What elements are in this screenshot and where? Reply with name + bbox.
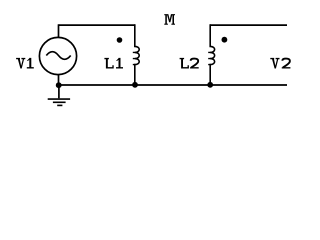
label M <box>164 14 175 25</box>
wire: left loop top <box>59 24 135 26</box>
wire: bottom rail <box>59 84 288 86</box>
wire: V1 bottom stub <box>58 75 60 85</box>
label L2 <box>180 58 199 69</box>
phase dot of L1 <box>117 37 123 43</box>
junction at L1 bottom <box>132 82 138 88</box>
junction at L2 bottom <box>207 82 213 88</box>
label V2 <box>270 58 290 69</box>
voltage source V1 <box>39 37 76 74</box>
phase dot of L2 <box>222 37 228 43</box>
wire: V1 top stub <box>58 24 60 37</box>
label V1 <box>16 58 34 69</box>
junction at V1 bottom <box>56 82 62 88</box>
wire: right loop top <box>210 24 287 26</box>
inductor L2 <box>208 24 214 85</box>
ground <box>48 85 70 105</box>
label L1 <box>104 58 123 69</box>
inductor L1 <box>133 24 139 85</box>
